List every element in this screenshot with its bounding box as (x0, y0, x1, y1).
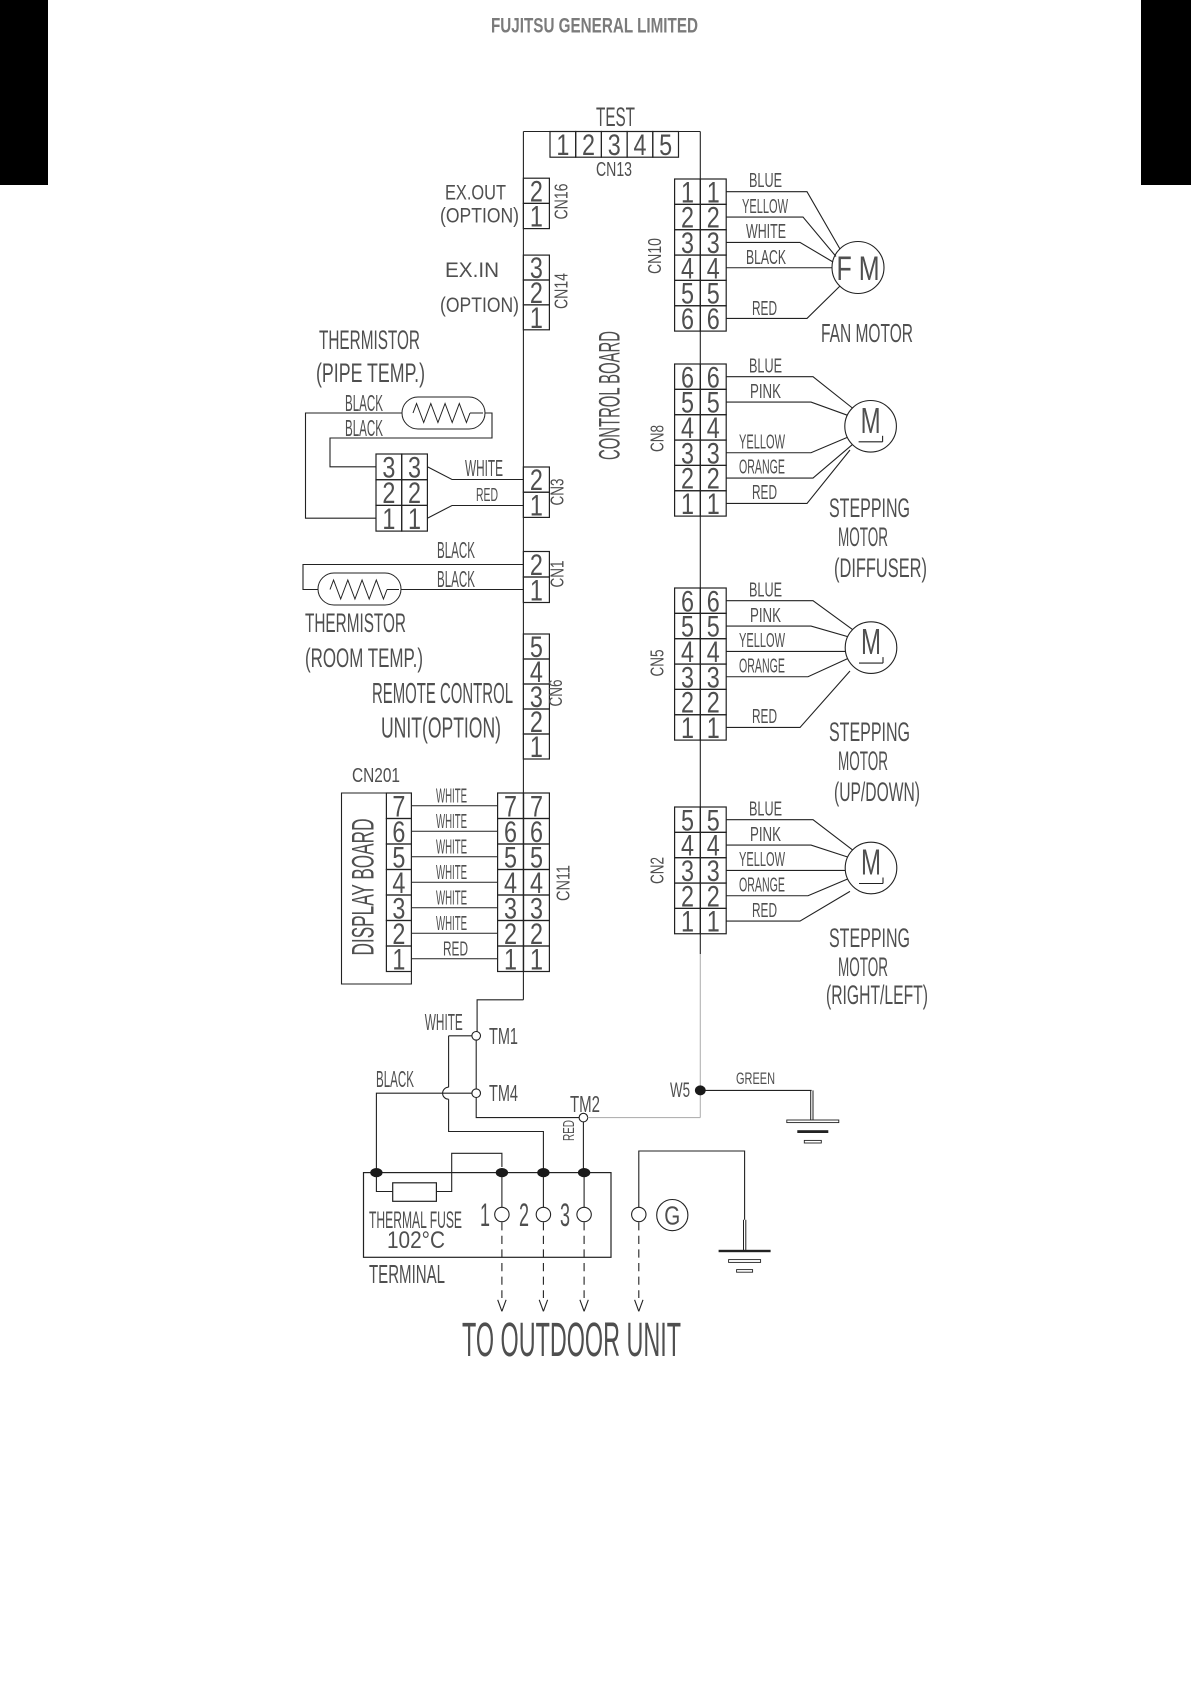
svg-text:TM4: TM4 (489, 1080, 518, 1106)
wire CN2-5 BLUE (726, 820, 852, 850)
svg-text:CN8: CN8 (647, 425, 668, 452)
svg-text:1: 1 (392, 943, 405, 976)
thermal fuse F1 102C (376, 1177, 392, 1192)
wire CN2-3 YELLOW (726, 869, 845, 871)
svg-text:BLACK: BLACK (376, 1066, 414, 1092)
wire room thermistor black 1 (303, 565, 523, 590)
svg-text:WHITE: WHITE (436, 837, 467, 859)
wire TM4 to TM2 (476, 1098, 579, 1118)
wire CN201-4 WHITE (411, 881, 497, 883)
svg-text:TM2: TM2 (570, 1091, 600, 1117)
svg-text:1: 1 (530, 731, 543, 764)
svg-text:RED: RED (561, 1120, 578, 1141)
svg-text:GREEN: GREEN (736, 1069, 775, 1088)
connector CN11 (498, 793, 524, 819)
connector CN8 (675, 364, 701, 389)
svg-text:BLACK: BLACK (437, 537, 475, 563)
wire to ground terminal G (639, 1151, 745, 1220)
wire CN10-1 BLUE (726, 192, 840, 249)
svg-text:1: 1 (382, 503, 395, 536)
svg-text:(DIFFUSER): (DIFFUSER) (834, 553, 927, 583)
wire CN5-6 BLUE (726, 601, 852, 630)
svg-text:M: M (861, 621, 881, 662)
svg-text:FAN MOTOR: FAN MOTOR (821, 320, 913, 348)
svg-text:1: 1 (556, 129, 569, 162)
svg-text:F M: F M (837, 250, 880, 288)
svg-text:1: 1 (707, 488, 720, 521)
svg-text:RED: RED (752, 482, 777, 504)
junction dot (terminal 2) (537, 1168, 549, 1177)
wire CN201-7 WHITE (411, 805, 497, 807)
connector CN10 (675, 179, 701, 204)
wire pipe thermistor black 1 (306, 413, 403, 518)
terminal 1 (501, 1177, 503, 1207)
svg-text:STEPPING: STEPPING (829, 493, 910, 523)
svg-text:2: 2 (519, 1196, 529, 1233)
svg-text:4: 4 (633, 129, 646, 162)
svg-text:YELLOW: YELLOW (739, 849, 785, 871)
svg-text:6: 6 (681, 303, 694, 336)
wire CN5-4 YELLOW (726, 650, 845, 652)
svg-text:1: 1 (530, 201, 543, 234)
stepping motor (diffuser) (845, 401, 897, 453)
svg-text:REMOTE CONTROL: REMOTE CONTROL (372, 678, 513, 710)
svg-text:WHITE: WHITE (436, 862, 467, 884)
svg-text:PINK: PINK (750, 605, 781, 627)
svg-text:RED: RED (443, 939, 468, 961)
svg-text:CN14: CN14 (551, 273, 572, 309)
junction dot (terminal 3) (578, 1168, 590, 1177)
svg-text:1: 1 (530, 574, 543, 607)
svg-text:PINK: PINK (750, 824, 781, 846)
wire CN8-1 RED (726, 450, 850, 503)
terminal G circle (632, 1207, 646, 1221)
svg-text:CN10: CN10 (644, 238, 665, 274)
svg-text:BLACK: BLACK (345, 415, 383, 441)
wire CN2-2 ORANGE (726, 879, 847, 896)
svg-text:BLACK: BLACK (437, 566, 475, 592)
svg-text:1: 1 (530, 489, 543, 522)
svg-text:1: 1 (530, 302, 543, 335)
wire CN201-3 WHITE (411, 907, 497, 909)
svg-text:MOTOR: MOTOR (838, 522, 888, 552)
junction dot (black wire) (370, 1168, 382, 1177)
ground (terminal) (719, 1250, 771, 1252)
connector CN5 (675, 588, 701, 613)
connector CN1 (523, 552, 549, 578)
wire CN8-5 PINK (726, 402, 847, 415)
svg-text:W5: W5 (670, 1078, 690, 1102)
svg-text:WHITE: WHITE (465, 455, 503, 481)
terminal 2 (542, 1177, 544, 1207)
wire TM1 to terminal 2 with crossover hop (449, 1035, 472, 1037)
svg-text:CN11: CN11 (552, 865, 573, 901)
wire control board to TM1 (WHITE) (477, 1000, 523, 1032)
wire CN10-3 WHITE (726, 242, 833, 262)
svg-text:2: 2 (582, 129, 595, 162)
connector CN6 (523, 634, 549, 659)
svg-text:MOTOR: MOTOR (838, 746, 888, 776)
svg-text:EX.IN: EX.IN (445, 258, 499, 282)
svg-text:102°C: 102°C (387, 1227, 445, 1254)
display board outline (342, 793, 412, 984)
svg-text:BLUE: BLUE (749, 580, 782, 602)
wire CN201-2 WHITE (411, 932, 497, 934)
svg-text:PINK: PINK (750, 381, 781, 403)
page corner bar right (1141, 0, 1191, 185)
svg-text:CN201: CN201 (352, 765, 400, 787)
svg-text:CN3: CN3 (547, 479, 568, 506)
connector CN13 (TEST) (550, 132, 576, 158)
svg-text:WHITE: WHITE (436, 888, 467, 910)
wire CN10-2 YELLOW (726, 217, 836, 256)
svg-text:STEPPING: STEPPING (829, 923, 910, 953)
svg-text:BLUE: BLUE (749, 170, 782, 192)
svg-text:BLUE: BLUE (749, 356, 782, 378)
svg-text:WHITE: WHITE (746, 221, 786, 243)
wire CN2-1 RED (726, 891, 850, 921)
dashed leads to outdoor unit (501, 1222, 503, 1298)
svg-text:TO OUTDOOR UNIT: TO OUTDOOR UNIT (462, 1313, 681, 1367)
svg-text:CN5: CN5 (647, 650, 668, 677)
thermistor (pipe temp.) element (402, 397, 485, 429)
svg-text:G: G (664, 1201, 680, 1231)
connector CN16 (EX.OUT) (523, 178, 549, 203)
svg-text:CN6: CN6 (545, 680, 566, 707)
svg-text:MOTOR: MOTOR (838, 952, 888, 982)
wire pipe thermistor black 2 (330, 413, 492, 467)
wire CN5-1 RED (726, 671, 850, 727)
wire W5 net (gray) (699, 954, 701, 1118)
stepping motor (right/left) (845, 842, 897, 894)
wire CN5-3 ORANGE (726, 659, 847, 677)
svg-text:RED: RED (752, 900, 777, 922)
svg-text:(UP/DOWN): (UP/DOWN) (834, 777, 920, 807)
svg-text:TM1: TM1 (489, 1023, 518, 1049)
svg-text:YELLOW: YELLOW (742, 196, 788, 218)
svg-text:THERMISTOR: THERMISTOR (305, 608, 406, 638)
svg-text:1: 1 (707, 712, 720, 745)
svg-text:1: 1 (707, 906, 720, 939)
svg-text:FUJITSU GENERAL LIMITED: FUJITSU GENERAL LIMITED (491, 14, 698, 38)
connector CN201 cells (386, 793, 411, 819)
svg-text:1: 1 (504, 943, 517, 976)
svg-text:(OPTION): (OPTION) (440, 204, 519, 228)
svg-text:STEPPING: STEPPING (829, 717, 910, 747)
svg-text:UNIT(OPTION): UNIT(OPTION) (381, 713, 501, 745)
svg-text:RED: RED (752, 298, 777, 320)
svg-text:ORANGE: ORANGE (739, 875, 785, 897)
svg-text:RED: RED (752, 706, 777, 728)
svg-text:1: 1 (681, 712, 694, 745)
svg-text:YELLOW: YELLOW (739, 432, 785, 454)
terminal TM2 (579, 1113, 588, 1122)
svg-text:M: M (861, 842, 881, 883)
wire CN201-5 WHITE (411, 856, 497, 858)
stepping motor (up/down) (845, 622, 897, 674)
svg-text:3: 3 (560, 1196, 570, 1233)
svg-text:1: 1 (480, 1196, 490, 1233)
terminal 3 (583, 1177, 585, 1207)
wire WHITE to CN3-2 (427, 467, 523, 480)
svg-text:TERMINAL: TERMINAL (369, 1261, 445, 1289)
svg-text:YELLOW: YELLOW (739, 630, 785, 652)
svg-text:3: 3 (608, 129, 621, 162)
ground mark G (657, 1200, 688, 1231)
connector CN3 (523, 467, 549, 492)
wire CN8-3 YELLOW (726, 437, 847, 452)
svg-text:TEST: TEST (596, 102, 635, 132)
wire CN5-5 PINK (726, 626, 847, 637)
wire CN8-6 BLUE (726, 377, 852, 408)
wire room thermistor black 2 (401, 589, 523, 591)
connector CN14 (EX.IN) (523, 255, 549, 280)
wire TM4 BLACK to terminal bus (376, 1093, 472, 1172)
wire RED to CN3-1 (427, 506, 523, 519)
connector CN2 (675, 807, 701, 832)
svg-text:WHITE: WHITE (436, 913, 467, 935)
svg-text:DISPLAY BOARD: DISPLAY BOARD (346, 819, 381, 956)
svg-text:THERMISTOR: THERMISTOR (319, 325, 420, 355)
svg-text:RED: RED (476, 484, 498, 505)
svg-text:WHITE: WHITE (436, 811, 467, 833)
svg-text:BLUE: BLUE (749, 799, 782, 821)
junction dot (terminal 1) (496, 1168, 508, 1177)
wire CN10-6 RED (726, 286, 840, 318)
control board outline (523, 131, 700, 133)
wire CN201-1 RED (411, 958, 497, 960)
svg-text:M: M (861, 400, 881, 441)
svg-text:(PIPE TEMP.): (PIPE TEMP.) (316, 358, 425, 388)
svg-text:(RIGHT/LEFT): (RIGHT/LEFT) (826, 980, 928, 1010)
terminal TM4 (472, 1089, 481, 1098)
svg-text:CONTROL BOARD: CONTROL BOARD (594, 331, 627, 460)
svg-text:EX.OUT: EX.OUT (445, 181, 506, 205)
svg-text:CN13: CN13 (596, 159, 632, 181)
svg-text:CN2: CN2 (647, 857, 668, 884)
svg-text:(OPTION): (OPTION) (440, 293, 519, 317)
svg-text:1: 1 (681, 488, 694, 521)
pipe thermistor connector 3x2 (376, 454, 402, 480)
svg-text:ORANGE: ORANGE (739, 656, 785, 678)
svg-text:1: 1 (530, 943, 543, 976)
svg-text:WHITE: WHITE (436, 786, 467, 808)
wire CN201-6 WHITE (411, 830, 497, 832)
svg-text:CN16: CN16 (551, 184, 572, 220)
svg-text:BLACK: BLACK (345, 390, 383, 416)
wire CN10-4 BLACK (726, 267, 832, 269)
svg-text:5: 5 (659, 129, 672, 162)
svg-text:(ROOM TEMP.): (ROOM TEMP.) (305, 643, 423, 673)
ground (green wire) (787, 1120, 839, 1123)
terminal TM1 (472, 1032, 481, 1041)
svg-text:BLACK: BLACK (746, 247, 786, 269)
svg-text:ORANGE: ORANGE (739, 457, 785, 479)
fan motor FM (832, 242, 884, 294)
svg-text:WHITE: WHITE (425, 1009, 463, 1035)
wire TM2 to terminal 3 (582, 1122, 584, 1173)
wire CN2-4 PINK (726, 845, 847, 857)
wire TM1 to TM4 (475, 1040, 477, 1089)
page corner bar left (0, 0, 48, 185)
terminal box (364, 1173, 612, 1258)
thermistor (room temp.) element (318, 573, 401, 605)
svg-text:1: 1 (408, 503, 421, 536)
wire CN8-2 ORANGE (726, 445, 852, 479)
svg-text:1: 1 (681, 906, 694, 939)
svg-text:CN1: CN1 (547, 561, 568, 588)
svg-text:6: 6 (707, 303, 720, 336)
node W5 (695, 1085, 706, 1095)
